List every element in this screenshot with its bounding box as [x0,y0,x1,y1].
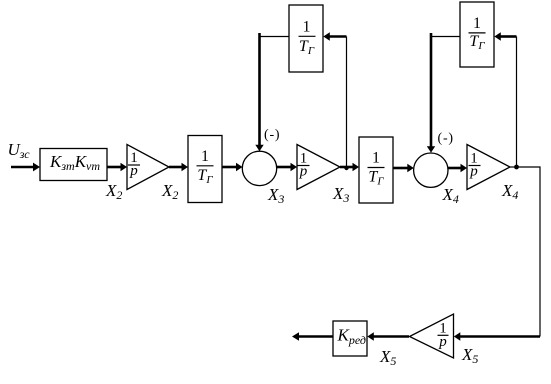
node X2 label b [161,181,178,202]
svg-text:KзтKvm: KзтKvm [49,152,100,173]
integrator U2 1/p (triangle) [297,145,340,190]
wire summing junction 1 to integrator 2 [277,163,298,171]
node junction dot after integrator 2 [344,166,348,170]
svg-text:X5: X5 [379,347,396,368]
wire summing junction 2 to integrator 3 [448,164,467,172]
wire tap up from node to feedback block 1 [346,37,348,168]
svg-text:TГ: TГ [469,33,485,52]
wire tap up from node to feedback block 2 [516,37,518,168]
block 1/Tг (top feedback 2) [460,2,494,67]
svg-text:(-): (-) [264,128,280,143]
block 1/Tг (main row first) [188,136,222,203]
wire input arrow into K block [11,163,40,172]
wire node right and down to bottom row [517,167,541,337]
wire integrator 1 to block 1/Tг [169,163,188,171]
node U_зс input label [8,140,31,161]
integrator U1 1/p (triangle) [127,145,169,190]
summing junction 1 (circle) [242,151,276,185]
wire block 1/Tг second to summing junction 2 [393,164,414,172]
node X2 label a [105,181,122,202]
svg-text:X2: X2 [161,181,178,202]
label (-) sign at summing junction 2 [438,131,454,146]
node junction dot after integrator 3 [514,165,519,170]
svg-text:Uзс: Uзс [8,140,31,161]
svg-text:p: p [469,164,478,180]
integrator U3 1/p (triangle) [467,145,510,190]
label (-) sign at summing junction 1 [264,128,280,143]
wire integrator 2 to block 1/Tг second [340,163,359,171]
svg-text:p: p [299,164,308,180]
wire feedback drop into summing junction 2 [427,33,435,153]
wire tap into feedback block 1 [323,32,346,40]
wire bottom row into integrator 4 [454,332,540,340]
svg-text:(-): (-) [438,131,454,146]
svg-text:TГ: TГ [368,169,384,188]
node X4 label a [442,185,459,206]
svg-text:1: 1 [372,150,380,167]
wire integrator 3 tip to node [510,166,517,168]
wire feedback drop into summing junction 1 [255,33,263,151]
wire feedback block 2 output to drop 2 [431,36,460,38]
wire K block to integrator 1 [107,163,127,171]
node X4 label b [501,181,518,202]
block K_ред (gain) [333,321,367,356]
svg-text:TГ: TГ [197,167,213,186]
integrator U4 1/p (left pointing triangle) [410,314,454,358]
node X5 label a [461,345,478,366]
svg-text:Kред: Kред [337,326,366,348]
svg-text:1: 1 [201,148,209,165]
svg-text:X3: X3 [267,185,284,206]
wire integrator 4 to block K_ред [367,332,409,340]
block 1/Tг (main row second) [359,137,393,203]
wire block 1/Tг to summing junction 1 [222,163,243,171]
svg-text:1: 1 [303,19,311,36]
node X3 label b [332,184,349,205]
svg-text:X5: X5 [461,345,478,366]
wire output arrow from K_ред [292,332,333,340]
svg-text:1: 1 [473,15,481,32]
svg-text:X4: X4 [501,181,518,202]
block 1/Tг (top feedback 1) [289,5,323,72]
svg-text:X2: X2 [105,181,122,202]
block K_зт K_vm (gain) [40,149,107,181]
summing junction 2 (circle) [414,153,448,187]
wire feedback block 1 output to drop 1 [260,36,290,38]
node X5 label b [379,347,396,368]
svg-text:X3: X3 [332,184,349,205]
wire tap into feedback block 2 [494,32,516,40]
node X3 label a [267,185,284,206]
svg-text:TГ: TГ [299,38,315,57]
svg-text:X4: X4 [442,185,459,206]
svg-text:p: p [438,334,447,350]
svg-text:p: p [129,163,138,179]
